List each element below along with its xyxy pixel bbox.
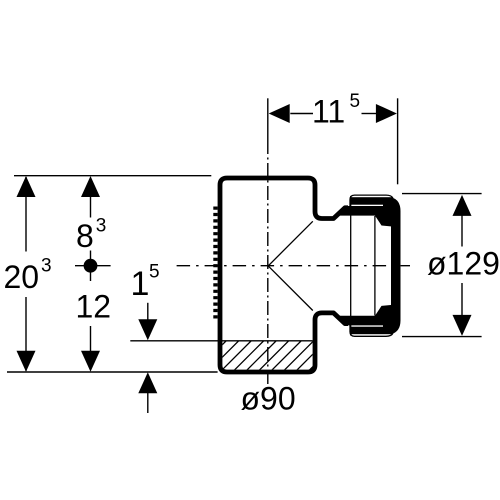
dimension 20.3: up arrow: [17, 176, 36, 197]
vertical centerline dash-dot: [267, 140, 269, 387]
dimension d129: upper shaft: [461, 215, 463, 247]
dimension 8.3: up arrow: [81, 176, 100, 197]
horizontal centerline solid segment through dot: [75, 265, 111, 267]
svg-text:5: 5: [350, 91, 361, 112]
extension line top (outer top of body): [14, 175, 211, 177]
dimension 20.3: down arrow: [17, 351, 36, 372]
corrugation teeth on left wall: [213, 207, 217, 321]
body outline: [220, 178, 348, 372]
dimension 8.3: shaft: [90, 197, 92, 218]
dimension 1.5: lower shaft: [147, 392, 149, 413]
dimension d129: down arrow: [453, 315, 472, 336]
socket cap outline top: [350, 195, 393, 208]
seal ring upper bridge: [383, 202, 393, 211]
horizontal centerline dash-dot: [177, 265, 410, 267]
svg-text:ø90: ø90: [241, 381, 296, 417]
svg-text:20: 20: [4, 259, 40, 295]
dimension 1.5: upper shaft: [147, 303, 149, 320]
extension line for 11.5 left / centerline solid top: [267, 98, 269, 140]
svg-text:8: 8: [76, 218, 94, 254]
seal ring upper wedge: [334, 206, 392, 227]
extension line for 11.5 right: [397, 98, 399, 184]
dimension 12: shaft: [90, 326, 92, 351]
extension line for d129 top: [402, 193, 482, 195]
svg-text:3: 3: [41, 256, 52, 277]
hatch lines in lower body: [196, 341, 339, 371]
seal ring lower band: [351, 327, 393, 335]
dimension 11.5: left arrow: [269, 104, 290, 123]
svg-text:11: 11: [312, 94, 345, 130]
dimension 11.5: right line segment: [362, 113, 377, 115]
center reference dot vertical tick: [90, 251, 92, 282]
dimension 11.5: right arrow: [376, 104, 397, 123]
svg-text:5: 5: [149, 262, 160, 283]
socket inner vertical line right: [374, 216, 376, 316]
extension line for d129 bottom: [402, 336, 482, 338]
center reference dot: [84, 259, 98, 273]
seal ring upper band: [351, 197, 393, 205]
funnel diagonal lower: [268, 266, 313, 311]
dimension 12: down arrow: [81, 351, 100, 372]
seal ring lower bridge: [383, 321, 393, 330]
funnel diagonal upper: [268, 221, 313, 266]
svg-text:1: 1: [131, 265, 150, 303]
dimension 20.3: lower shaft: [25, 297, 27, 371]
socket cap outline bottom: [350, 323, 393, 336]
svg-text:ø129: ø129: [427, 246, 500, 282]
dimension 1.5: up arrow below bottom line: [138, 372, 157, 393]
dimension 20.3: upper shaft: [25, 177, 27, 252]
svg-text:3: 3: [96, 216, 107, 237]
socket inner vertical line left: [350, 196, 352, 336]
socket face (right end): [391, 197, 401, 334]
seal ring lower wedge: [334, 305, 392, 326]
svg-text:12: 12: [76, 289, 112, 325]
dimension d129: up arrow: [453, 195, 472, 216]
dimension 1.5: down arrow: [138, 319, 157, 340]
extension line at hatch top (1.5 reference): [130, 340, 312, 342]
dimension 11.5: left line segment: [290, 113, 313, 115]
extension line bottom (outer bottom of body): [7, 371, 218, 373]
dimension d129: lower shaft: [461, 283, 463, 316]
